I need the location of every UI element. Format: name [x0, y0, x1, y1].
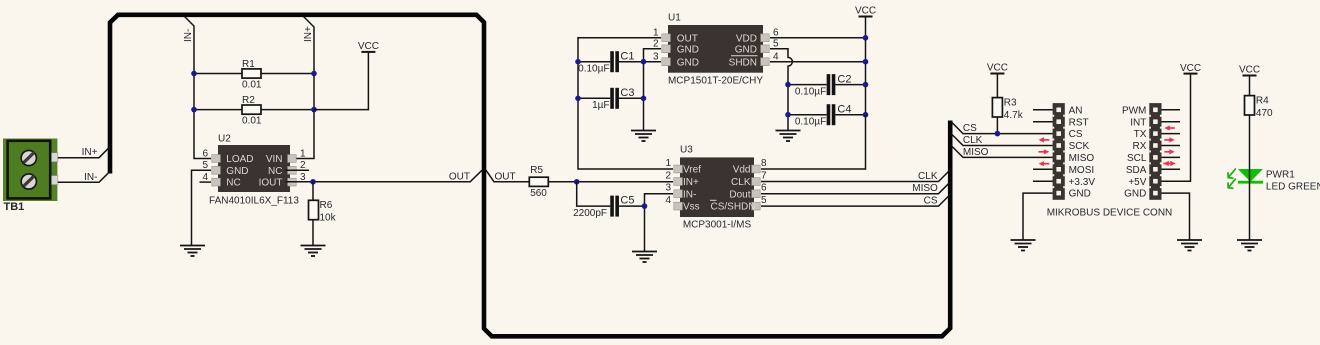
- wire RST stub: [1033, 121, 1053, 123]
- svg-text:GND: GND: [735, 44, 757, 55]
- wire C1/C3 right chain to ground: [643, 62, 645, 131]
- wire TX stub: [1162, 133, 1181, 135]
- capacitor C1: [612, 51, 617, 72]
- svg-text:CS: CS: [924, 196, 938, 207]
- wire C5 right: [619, 205, 644, 207]
- resistor R3: [992, 98, 1002, 117]
- svg-text:CS: CS: [963, 123, 977, 134]
- resistor R6: [309, 200, 319, 219]
- wire RX stub: [1162, 145, 1181, 147]
- svg-text:LOAD: LOAD: [226, 154, 253, 165]
- svg-text:MCP3001-I/MS: MCP3001-I/MS: [683, 220, 752, 231]
- wire VCC rail vertical: [865, 17, 867, 115]
- wire SCL stub: [1162, 156, 1181, 158]
- amplifier U2 FAN4010IL6X_F113 pin labels: [226, 154, 282, 189]
- TB1 screw 1: [21, 150, 36, 165]
- svg-text:0.01: 0.01: [242, 80, 262, 91]
- svg-text:IN-: IN-: [683, 189, 696, 200]
- svg-text:IN+: IN+: [303, 26, 314, 42]
- ground (right header): [1177, 240, 1202, 251]
- wire AN stub: [1033, 109, 1053, 111]
- svg-text:FAN4010IL6X_F113: FAN4010IL6X_F113: [209, 196, 299, 207]
- svg-text:CS/SHDN: CS/SHDN: [710, 202, 755, 213]
- svg-text:GND: GND: [1124, 189, 1146, 200]
- svg-text:C1: C1: [620, 51, 634, 63]
- svg-text:C3: C3: [620, 87, 634, 99]
- svg-text:IN-: IN-: [183, 29, 194, 42]
- wire C5 left: [577, 182, 611, 206]
- wire MISO from U3 to bus: [761, 181, 951, 194]
- wire C1 left: [578, 61, 610, 63]
- right header pin labels: [1122, 105, 1147, 199]
- svg-text:0.10µF: 0.10µF: [578, 64, 609, 75]
- junction VCC rail / SHDN: [863, 59, 869, 65]
- arrow SDA (double): [1163, 161, 1176, 166]
- svg-text:SDA: SDA: [1126, 165, 1147, 176]
- wire R4 to LED: [1249, 115, 1251, 169]
- wire R1 row: [194, 73, 314, 75]
- wire PWM stub: [1162, 109, 1181, 111]
- wire MISO from bus to header MISO pin: [951, 145, 1053, 157]
- wire right header GND down: [1162, 193, 1190, 240]
- wire LED to ground: [1249, 169, 1251, 240]
- junction VCC rail / VDD: [863, 35, 869, 41]
- svg-text:IN+: IN+: [683, 177, 699, 188]
- svg-text:C5: C5: [620, 195, 634, 207]
- svg-text:IN+: IN+: [82, 147, 98, 158]
- svg-text:560: 560: [530, 188, 547, 199]
- svg-text:4: 4: [202, 172, 208, 183]
- svg-text:MISO: MISO: [912, 183, 938, 194]
- svg-text:VDD: VDD: [736, 33, 757, 44]
- wire C2 right: [835, 84, 865, 86]
- wire INT stub: [1162, 121, 1181, 123]
- svg-text:CLK: CLK: [918, 171, 938, 182]
- junction pin2-3 / C1: [641, 59, 647, 65]
- wire U1 GND pin5 down with hop: [770, 49, 792, 131]
- wire OUT from bus to R5: [486, 170, 529, 182]
- capacitor C3: [612, 88, 617, 109]
- svg-text:GND: GND: [226, 166, 248, 177]
- junction pin5 chain / C2: [785, 82, 791, 88]
- power VCC (U1 rail): [855, 6, 876, 17]
- voltage reference U1 MCP1501T-20E/CHY pin stubs: [662, 34, 769, 66]
- power VCC (+5V header): [1180, 63, 1201, 74]
- svg-text:1: 1: [653, 28, 659, 39]
- junction IOUT / R6: [310, 179, 316, 185]
- junction Vss / C5 / IN- chain: [642, 203, 648, 209]
- connector MIKROBUS left header: [1053, 103, 1065, 200]
- wire C3 right: [619, 97, 644, 99]
- power VCC (U2 supply): [358, 41, 379, 52]
- ADC U3 MCP3001-I/MS body: [680, 157, 754, 217]
- ADC U3 MCP3001-I/MS pin numbers: [665, 158, 767, 206]
- ground (U1 left): [631, 131, 656, 142]
- junction VCC rail / C4 / U3 Vdd: [863, 112, 869, 118]
- wire R2 row: [194, 109, 314, 111]
- svg-text:CLK: CLK: [731, 177, 751, 188]
- svg-text:OUT: OUT: [449, 171, 470, 182]
- ground (U1 right): [776, 131, 801, 142]
- svg-text:4: 4: [665, 195, 671, 206]
- svg-text:R2: R2: [242, 95, 255, 106]
- arrow MOSI (left): [1039, 161, 1050, 166]
- svg-text:6: 6: [761, 183, 767, 194]
- svg-text:VCC: VCC: [855, 6, 876, 17]
- svg-text:7: 7: [761, 170, 767, 181]
- ground (left header): [1011, 240, 1036, 251]
- wire U1 GND pin2 down: [644, 49, 662, 62]
- wire U2 GND pin5 to ground: [192, 170, 212, 245]
- junction IN- / R1: [191, 71, 197, 77]
- wire U3 Vref to U1 OUT (vertical x578): [578, 38, 673, 169]
- svg-text:IOUT: IOUT: [259, 178, 283, 189]
- LED PWR1: [1238, 169, 1263, 182]
- svg-text:NC: NC: [226, 178, 240, 189]
- svg-text:2: 2: [653, 39, 659, 50]
- wire U3 IN- to ground chain: [645, 194, 674, 252]
- resistor R4: [1245, 96, 1255, 115]
- svg-text:VCC: VCC: [358, 41, 379, 52]
- wire OUT from U2 IOUT to bus: [286, 170, 483, 182]
- left header pin labels: [1069, 105, 1096, 199]
- svg-text:C2: C2: [837, 73, 851, 85]
- TB1 screw 2: [21, 174, 36, 189]
- svg-text:INT: INT: [1130, 117, 1146, 128]
- svg-text:+3.3V: +3.3V: [1069, 177, 1096, 188]
- wire VCC to R4: [1249, 76, 1251, 96]
- svg-text:3: 3: [653, 52, 659, 63]
- svg-text:SCL: SCL: [1127, 153, 1147, 164]
- svg-text:GND: GND: [677, 44, 699, 55]
- LED emission arrows: [1228, 169, 1235, 188]
- svg-text:OUT: OUT: [495, 171, 516, 182]
- svg-text:Dout: Dout: [729, 189, 750, 200]
- svg-text:10k: 10k: [320, 213, 337, 224]
- junction OUT / C5: [574, 179, 580, 185]
- wire CS from U3 to bus: [761, 194, 951, 207]
- voltage reference U1 MCP1501T-20E/CHY overlines: [731, 55, 758, 57]
- svg-text:Vdd: Vdd: [733, 165, 751, 176]
- wire CLK from U3 to bus: [761, 169, 951, 182]
- junction x578 / C1: [575, 59, 581, 65]
- wire C2 left: [788, 84, 827, 86]
- svg-text:0.10µF: 0.10µF: [795, 116, 826, 127]
- ground (U3): [632, 252, 657, 263]
- arrow RX (right): [1164, 137, 1175, 142]
- wire U2 pin4 NC stub: [200, 181, 212, 183]
- svg-text:4.7k: 4.7k: [1004, 110, 1024, 121]
- svg-text:NC: NC: [268, 166, 282, 177]
- voltage reference U1 MCP1501T-20E/CHY pin labels: [677, 33, 757, 68]
- junction pin5 chain / C4: [785, 112, 791, 118]
- svg-text:RX: RX: [1132, 141, 1146, 152]
- svg-text:5: 5: [202, 160, 208, 171]
- svg-text:C4: C4: [837, 104, 851, 116]
- svg-text:MISO: MISO: [1069, 153, 1095, 164]
- svg-text:Vss: Vss: [683, 202, 700, 213]
- svg-text:R4: R4: [1256, 96, 1269, 107]
- svg-text:GND: GND: [1069, 189, 1091, 200]
- svg-text:MIKROBUS DEVICE CONN: MIKROBUS DEVICE CONN: [1047, 208, 1173, 219]
- svg-text:1µF: 1µF: [592, 100, 609, 111]
- wire IN- from TB1 pin2 to bus: [58, 171, 110, 182]
- svg-text:TX: TX: [1134, 129, 1147, 140]
- capacitor C5: [612, 196, 617, 217]
- ADC U3 MCP3001-I/MS pin labels: [683, 165, 756, 213]
- svg-text:R1: R1: [242, 59, 255, 70]
- svg-text:6: 6: [773, 28, 779, 39]
- svg-text:R5: R5: [530, 165, 543, 176]
- svg-text:R3: R3: [1004, 98, 1017, 109]
- wire C3 left: [578, 97, 610, 99]
- svg-text:OUT: OUT: [677, 33, 698, 44]
- svg-text:VCC: VCC: [987, 63, 1008, 74]
- junction R3 / CS: [995, 131, 1001, 137]
- wire MOSI stub: [1033, 168, 1053, 170]
- svg-text:SCK: SCK: [1069, 141, 1090, 152]
- wire IN+ from TB1 pin1 to bus: [58, 147, 110, 158]
- svg-text:1: 1: [300, 148, 306, 159]
- wire +3.3V stub: [1033, 180, 1053, 182]
- ground (U2): [180, 246, 205, 257]
- wire U3 Vdd up to VCC rail: [761, 115, 866, 169]
- svg-text:6: 6: [202, 148, 208, 159]
- amplifier U2 FAN4010IL6X_F113 pin stubs: [212, 155, 296, 186]
- wire U1 SHDN to VCC rail: [770, 61, 866, 63]
- junction IN+ / R2 / VCC: [311, 107, 317, 113]
- ground (R6): [301, 246, 326, 257]
- svg-text:0.01: 0.01: [242, 116, 262, 127]
- svg-text:2: 2: [665, 170, 671, 181]
- terminal block TB1: [3, 139, 58, 202]
- resistor R1: [242, 69, 261, 78]
- wire left header GND down: [1023, 193, 1053, 240]
- svg-text:0.10µF: 0.10µF: [795, 86, 826, 97]
- svg-text:MOSI: MOSI: [1069, 165, 1095, 176]
- arrow SCL (right): [1164, 149, 1175, 154]
- svg-text:PWM: PWM: [1122, 105, 1146, 116]
- svg-text:CS: CS: [1069, 129, 1083, 140]
- wire +5V to VCC: [1162, 74, 1191, 182]
- capacitor C4: [828, 104, 833, 125]
- wire U2 pin2 NC stub: [286, 169, 310, 171]
- svg-text:AN: AN: [1069, 105, 1083, 116]
- svg-text:MISO: MISO: [963, 147, 989, 158]
- junction VCC rail / C2: [863, 82, 869, 88]
- junction chain / C3: [641, 96, 647, 102]
- wire R5 to U3 IN+: [548, 181, 673, 183]
- svg-text:SHDN: SHDN: [729, 57, 757, 68]
- power VCC (LED): [1239, 65, 1260, 76]
- svg-text:GND: GND: [677, 57, 699, 68]
- wire R6 top: [312, 182, 314, 201]
- wire net IN- vertical (bus to U2 LOAD): [185, 17, 212, 159]
- wire bus SPI/input loop (thick): [110, 15, 950, 337]
- wire R6 to ground: [312, 220, 314, 246]
- svg-text:8: 8: [761, 158, 767, 169]
- svg-text:5: 5: [773, 39, 779, 50]
- svg-text:VCC: VCC: [1180, 63, 1201, 74]
- svg-text:VCC: VCC: [1239, 65, 1260, 76]
- svg-text:U3: U3: [680, 145, 693, 156]
- svg-text:RST: RST: [1069, 117, 1089, 128]
- svg-text:2200pF: 2200pF: [573, 208, 607, 219]
- voltage reference U1 MCP1501T-20E/CHY body: [668, 25, 763, 73]
- ADC U3 MCP3001-I/MS pin stubs: [674, 165, 760, 210]
- svg-text:5: 5: [761, 195, 767, 206]
- wire C1 right: [619, 61, 644, 63]
- wire VCC to R2 junction: [314, 52, 368, 110]
- svg-text:TB1: TB1: [4, 201, 25, 213]
- svg-text:+5V: +5V: [1128, 177, 1146, 188]
- wire SDA stub: [1162, 168, 1181, 170]
- svg-text:2: 2: [300, 160, 306, 171]
- wire U1 VDD to VCC rail: [770, 37, 866, 39]
- svg-text:1: 1: [665, 158, 671, 169]
- junction IN+ / R1: [311, 71, 317, 77]
- wire U1 GND pin3: [644, 61, 662, 63]
- resistor R2: [242, 105, 261, 114]
- wire R3 to CS line: [996, 117, 998, 134]
- svg-text:LED GREEN: LED GREEN: [1266, 181, 1320, 192]
- arrow TX (left): [1164, 125, 1175, 130]
- amplifier U2 FAN4010IL6X_F113 pin numbers: [202, 148, 306, 183]
- svg-text:R6: R6: [320, 200, 333, 211]
- wire C4 left: [788, 114, 827, 116]
- connector MIKROBUS right header: [1149, 103, 1161, 200]
- wire C4 right: [835, 114, 865, 116]
- svg-text:3: 3: [665, 183, 671, 194]
- svg-text:U2: U2: [218, 134, 231, 145]
- arrow MISO (right): [1039, 149, 1050, 154]
- wire VCC to R3: [996, 74, 998, 98]
- voltage reference U1 MCP1501T-20E/CHY pin numbers: [653, 28, 779, 63]
- resistor R5: [529, 177, 548, 186]
- capacitor C2: [828, 74, 833, 95]
- svg-text:MCP1501T-20E/CHY: MCP1501T-20E/CHY: [668, 76, 763, 87]
- svg-text:Vref: Vref: [683, 165, 701, 176]
- svg-text:VIN: VIN: [266, 154, 283, 165]
- svg-text:IN-: IN-: [84, 172, 97, 183]
- svg-text:CLK: CLK: [963, 135, 983, 146]
- amplifier U2 FAN4010IL6X_F113 body: [218, 145, 290, 192]
- arrow SCK (left): [1039, 137, 1050, 142]
- junction IN- / R2: [191, 107, 197, 113]
- ADC U3 MCP3001-I/MS overlines: [710, 199, 717, 201]
- wire net IN+ vertical (bus to U2 VIN): [286, 17, 315, 159]
- wire CS from bus to header CS pin: [951, 122, 1053, 134]
- wire CLK from bus to header SCK pin: [951, 134, 1053, 146]
- power VCC (R3 pullup): [987, 63, 1008, 74]
- ground (LED): [1237, 240, 1262, 251]
- svg-text:PWR1: PWR1: [1266, 169, 1295, 180]
- junction x578 / C3: [575, 96, 581, 102]
- svg-text:470: 470: [1256, 108, 1273, 119]
- svg-text:4: 4: [773, 52, 779, 63]
- svg-text:U1: U1: [668, 13, 681, 24]
